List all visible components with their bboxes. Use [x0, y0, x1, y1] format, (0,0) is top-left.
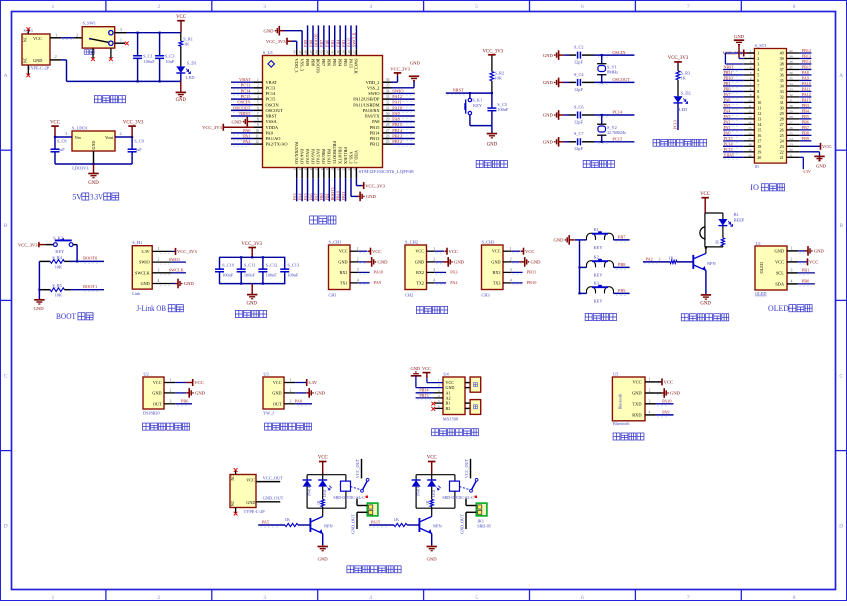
wire/net PB11 (bottom) — [345, 178, 347, 201]
wire/net PB15 (ST1 right) — [800, 68, 812, 70]
svg-text:16: 16 — [309, 167, 313, 171]
svg-text:1: 1 — [55, 33, 57, 38]
svg-text:PA3/RX/AO: PA3/RX/AO — [294, 142, 299, 164]
button K2 KEY — [580, 266, 587, 268]
pin U1.32 (PA11/USBDM) — [383, 104, 392, 106]
svg-text:VCC: VCC — [318, 455, 328, 460]
switch S_SW1 — [82, 27, 115, 48]
wire/net BOOT1 — [70, 289, 104, 291]
svg-text:5: 5 — [750, 71, 752, 75]
capacitor S_C12 100nF — [262, 257, 264, 269]
capacitor S_C2 12pF — [569, 54, 576, 56]
svg-text:PB11: PB11 — [724, 70, 733, 75]
svg-text:VCC: VCC — [415, 249, 424, 254]
svg-text:GND: GND — [315, 391, 326, 396]
wire/net PA5 (bottom) — [307, 178, 309, 201]
wire/net PB13 — [392, 138, 415, 140]
sensor U2 DS18B20 body — [143, 377, 164, 409]
svg-text:4: 4 — [750, 66, 752, 70]
svg-text:8: 8 — [793, 595, 796, 601]
svg-text:NPN: NPN — [324, 524, 334, 529]
svg-text:10: 10 — [255, 129, 259, 133]
svg-text:25: 25 — [386, 140, 390, 144]
title 声光报警电路 — [681, 314, 728, 321]
svg-text:Bluetooth: Bluetooth — [613, 421, 630, 426]
svg-text:GND: GND — [670, 391, 681, 396]
svg-text:SWCLK: SWCLK — [354, 59, 359, 75]
pin U1.12 (PA2/TX/AO) — [253, 143, 262, 145]
svg-text:PA4: PA4 — [297, 193, 302, 201]
svg-text:7: 7 — [750, 82, 752, 86]
svg-text:SRD-05: SRD-05 — [477, 523, 491, 528]
svg-text:3.3V: 3.3V — [90, 192, 103, 201]
svg-text:S_C4: S_C4 — [574, 72, 584, 77]
svg-text:RXD: RXD — [632, 413, 641, 418]
svg-text:30: 30 — [789, 104, 793, 108]
relay coil K1 — [345, 475, 347, 481]
wire/net PA0 (U3 OUT) — [295, 403, 312, 405]
button K1 KEY — [580, 239, 587, 241]
diode D2 1N4148 (flyback) — [415, 475, 417, 480]
svg-text:2: 2 — [55, 54, 57, 59]
wire pin21 3.3V — [800, 156, 804, 158]
svg-text:100uF: 100uF — [144, 59, 156, 64]
wire left trunk (boot) — [38, 261, 40, 299]
svg-text:35: 35 — [789, 77, 793, 81]
wire/net VCC_OUT (relay 2) — [470, 459, 472, 479]
svg-text:2: 2 — [357, 258, 359, 262]
svg-text:4: 4 — [357, 279, 359, 283]
wire/net PA12 (ST1 right) — [800, 96, 812, 98]
display U1 OLED body — [755, 246, 787, 290]
svg-text:36: 36 — [386, 78, 390, 82]
svg-text:12: 12 — [748, 109, 752, 113]
svg-text:SWCLK: SWCLK — [169, 268, 185, 273]
svg-text:VCC: VCC — [822, 144, 831, 149]
pin U1 top BOOT0 — [317, 49, 319, 55]
svg-text:6: 6 — [581, 4, 584, 10]
power port GND (H1.4) — [172, 283, 175, 285]
svg-text:PA2: PA2 — [646, 256, 653, 261]
svg-text:6: 6 — [581, 595, 584, 601]
svg-text:34: 34 — [789, 82, 793, 86]
pin U1 top PB9 — [307, 49, 309, 55]
connector T2 (TYPE-C-2P out) — [230, 475, 256, 508]
svg-text:9: 9 — [257, 123, 259, 127]
wire/net PA11 — [392, 104, 415, 106]
svg-text:PA11: PA11 — [802, 87, 811, 92]
pin ST1.19 — [744, 151, 755, 153]
svg-text:100nF: 100nF — [222, 272, 234, 277]
svg-text:U4: U4 — [443, 371, 449, 376]
ground GND (boot) — [38, 298, 40, 300]
svg-text:2: 2 — [76, 33, 78, 38]
svg-text:43: 43 — [320, 50, 324, 54]
svg-text:PB12: PB12 — [392, 139, 402, 144]
svg-text:VDD_1: VDD_1 — [354, 150, 359, 164]
svg-text:1: 1 — [757, 51, 759, 56]
svg-text:PB11: PB11 — [527, 270, 536, 275]
wire/net PB5 (top) — [334, 25, 336, 49]
wire/net PA5 (relay 1 base) — [258, 524, 285, 526]
svg-text:BEEP: BEEP — [734, 218, 745, 223]
svg-text:4: 4 — [510, 279, 512, 283]
svg-text:RX3: RX3 — [493, 270, 501, 275]
svg-text:7: 7 — [687, 4, 690, 10]
pin ST1.5 — [744, 74, 755, 76]
svg-text:PB2/BOOT1: PB2/BOOT1 — [332, 141, 337, 164]
svg-text:PC14: PC14 — [724, 141, 733, 146]
svg-text:44: 44 — [314, 50, 318, 54]
svg-text:6: 6 — [257, 106, 259, 110]
svg-text:PB10: PB10 — [527, 280, 537, 285]
driver U4 MX1508 body — [443, 377, 465, 415]
svg-text:VCC: VCC — [809, 260, 818, 265]
svg-text:1: 1 — [170, 378, 172, 382]
wire/net PA6 (ST1 left) — [723, 101, 744, 103]
pin U1 bottom PB10/TX — [339, 168, 341, 179]
svg-text:100nF: 100nF — [287, 272, 299, 277]
svg-text:S_C1: S_C1 — [143, 54, 153, 59]
svg-text:10: 10 — [757, 100, 761, 105]
wire/net PA10 (U5 TXD) — [656, 403, 674, 405]
pin ST1.34 — [787, 85, 800, 87]
wire pin3 to VCC_3V3 — [725, 52, 743, 54]
svg-text:PA10: PA10 — [392, 105, 402, 110]
wire/net PA3 (ST1 left) — [723, 118, 744, 120]
svg-text:20: 20 — [757, 155, 761, 160]
pin U1.30 (PA9/TX) — [383, 115, 392, 117]
pin U1 bottom PA3/RX/AO — [296, 168, 298, 179]
pin U1.5 (OSCIN) — [253, 104, 262, 106]
wire/net PA0 (ST1 left) — [723, 134, 744, 136]
power port VCC (CH1) — [358, 250, 367, 252]
svg-text:VCC_3V3: VCC_3V3 — [266, 39, 286, 44]
svg-text:D: D — [839, 524, 843, 530]
svg-text:PA9: PA9 — [392, 111, 400, 116]
capacitor S_C5 100nF — [491, 93, 493, 108]
power port VCC (CH3) — [511, 250, 520, 252]
svg-text:GND: GND — [272, 390, 281, 395]
wire/net SWIO — [392, 92, 415, 94]
wire/net PA12 — [392, 98, 415, 100]
svg-text:1K: 1K — [426, 500, 430, 505]
svg-text:3: 3 — [65, 131, 67, 136]
svg-text:41: 41 — [331, 50, 335, 54]
svg-text:24: 24 — [352, 167, 356, 171]
wire/net PB11 (CH3 RX) — [511, 271, 522, 273]
svg-text:1: 1 — [257, 78, 259, 82]
svg-text:LDO3V3: LDO3V3 — [72, 165, 88, 170]
svg-text:GND: GND — [88, 181, 99, 186]
svg-text:PB6: PB6 — [327, 59, 332, 67]
svg-text:18: 18 — [320, 167, 324, 171]
wire/net PB4 (top) — [339, 25, 341, 49]
pin U1.8 (VSSA) — [253, 121, 262, 123]
svg-text:PC15: PC15 — [266, 97, 277, 102]
pin ST1.16 — [744, 134, 755, 136]
wire/net PB11 (ST1 left) — [723, 74, 744, 76]
wire/net PB13 (ST1 right) — [800, 57, 812, 59]
pin ST1.38 — [787, 63, 800, 65]
svg-text:1N4148: 1N4148 — [308, 484, 312, 496]
sensor U3 YW_J body — [263, 377, 284, 409]
title 蓝牙模块 — [613, 433, 644, 440]
svg-text:PB0/AO: PB0/AO — [321, 149, 326, 164]
pin T1-bottom no-connect — [27, 65, 29, 75]
wire relay 1 bottom rail — [307, 507, 346, 509]
svg-text:GND: GND — [141, 281, 150, 286]
pin U1.34 (SWIO) — [383, 92, 392, 94]
wire/net PA4 (bottom) — [301, 178, 303, 201]
wire filter top rail — [219, 256, 285, 258]
svg-text:3: 3 — [290, 399, 292, 403]
pin ST1.25 — [787, 134, 800, 136]
transistor Q NPN (relay 1) — [322, 508, 324, 516]
pin ST1.32 — [787, 96, 800, 98]
svg-text:GND: GND — [184, 281, 195, 286]
power port GND (U3) — [295, 392, 306, 394]
relay output connector JK1 — [367, 503, 378, 516]
svg-text:GND: GND — [152, 390, 161, 395]
svg-text:7: 7 — [687, 595, 690, 601]
wire/net PB1 (OLED SCL) — [798, 272, 815, 274]
svg-text:VCC_3V3: VCC_3V3 — [18, 242, 38, 247]
svg-text:PC13: PC13 — [266, 85, 277, 90]
svg-text:17: 17 — [757, 138, 761, 143]
wire/net PA10 (ST1 right) — [800, 85, 812, 87]
svg-text:VCC: VCC — [372, 249, 381, 254]
pin U1.25 (PB12) — [383, 143, 392, 145]
svg-text:24: 24 — [789, 137, 793, 141]
svg-text:VBAT: VBAT — [724, 152, 735, 157]
wire GND to U4.2 — [415, 376, 417, 388]
svg-text:PB8: PB8 — [802, 130, 809, 135]
power port 3.3V (U3) — [295, 382, 306, 384]
svg-text:27: 27 — [780, 122, 784, 127]
pin U1 top PB6 — [328, 49, 330, 55]
svg-text:VCC: VCC — [449, 249, 458, 254]
relay output connector JK2 — [476, 503, 487, 516]
svg-text:S_K1: S_K1 — [472, 98, 482, 103]
svg-text:S_SW1: S_SW1 — [83, 21, 96, 26]
svg-text:10K: 10K — [55, 292, 63, 297]
svg-text:PB9: PB9 — [305, 59, 310, 67]
svg-text:PA10: PA10 — [374, 270, 383, 275]
svg-text:10: 10 — [748, 99, 752, 103]
svg-text:PB8: PB8 — [310, 59, 315, 67]
wire relay 1 emitter to GND — [322, 534, 324, 546]
wire/net PA3 (CH2 RX) — [435, 271, 446, 273]
svg-text:VCC_3V3: VCC_3V3 — [177, 249, 197, 254]
svg-text:2: 2 — [750, 55, 752, 59]
pin ST1.8 — [744, 90, 755, 92]
wire/net PA2 (CH2 TX) — [435, 282, 446, 284]
svg-text:BOOT0: BOOT0 — [316, 59, 321, 74]
svg-text:37: 37 — [352, 50, 356, 54]
svg-text:PA4: PA4 — [724, 108, 731, 113]
wire/net PA15 (ST1 right) — [800, 101, 812, 103]
pin U1.26 (PB13) — [383, 138, 392, 140]
svg-text:PC15: PC15 — [241, 94, 252, 99]
svg-text:B: B — [839, 223, 843, 229]
svg-text:14: 14 — [757, 122, 761, 127]
svg-text:5: 5 — [475, 595, 478, 601]
svg-text:S_C13: S_C13 — [287, 262, 299, 267]
svg-text:TYPE-C-2P: TYPE-C-2P — [244, 509, 266, 514]
wire/net GND_OUT (T2) — [256, 501, 280, 503]
pin U1.3 (PC14) — [253, 92, 262, 94]
svg-text:CH1: CH1 — [329, 292, 337, 297]
svg-text:GND: GND — [427, 556, 438, 561]
svg-text:4: 4 — [757, 67, 759, 72]
wire/net PB7 (top) — [323, 25, 325, 49]
svg-text:11: 11 — [757, 105, 761, 110]
svg-text:YW_J: YW_J — [263, 410, 274, 415]
LED (alarm) — [722, 213, 724, 219]
wire/net PC14 (ST1 left) — [723, 145, 744, 147]
svg-text:GND: GND — [553, 238, 564, 243]
pin T2-bottom no-connect — [235, 508, 237, 514]
svg-text:19: 19 — [748, 148, 752, 152]
wire/net PA5 (ST1 left) — [723, 107, 744, 109]
wire/net OSCOUT — [231, 109, 253, 111]
relay switch contacts 2 — [460, 487, 470, 490]
wire/net PB7 (ST1 right) — [800, 129, 812, 131]
wire/net PB9 (ST1 right) — [800, 140, 812, 142]
svg-text:20: 20 — [748, 153, 752, 157]
wire/net PA9 (U5 RXD) — [656, 414, 674, 416]
svg-text:S_C12: S_C12 — [266, 262, 278, 267]
svg-text:SCL: SCL — [776, 271, 784, 276]
svg-text:VCC: VCC — [273, 380, 282, 385]
pin U1 bottom PB2/BOOT1 — [334, 168, 336, 179]
svg-text:GND: GND — [246, 500, 255, 505]
wire/net NRST (ST1 left) — [723, 68, 744, 70]
svg-text:1: 1 — [120, 38, 122, 43]
header S_H1 (J-Link) — [132, 246, 152, 289]
svg-text:S_CH3: S_CH3 — [482, 240, 496, 245]
wire/net PB3 (ST1 right) — [800, 107, 812, 109]
svg-text:19: 19 — [757, 149, 761, 154]
wire/net PA10 (CH1 RX) — [358, 271, 369, 273]
svg-text:B1: B1 — [446, 401, 451, 406]
pin U1 top VDD_3 — [296, 49, 298, 55]
pin ST1.36 — [787, 74, 800, 76]
wire pin22 to GND — [800, 151, 820, 153]
wire/net PA11 (ST1 right) — [800, 90, 812, 92]
svg-text:KEY: KEY — [594, 273, 604, 278]
pin ST1.18 — [744, 145, 755, 147]
power port GND (U2) — [175, 392, 186, 394]
svg-text:SWCLK: SWCLK — [352, 32, 357, 47]
svg-text:2: 2 — [170, 389, 172, 393]
svg-text:PB3: PB3 — [343, 59, 348, 67]
svg-text:PB8: PB8 — [618, 262, 626, 267]
svg-text:SWIO: SWIO — [169, 257, 180, 262]
pin T2-top no-connect — [235, 471, 237, 475]
title 直流电机电路 — [432, 429, 479, 436]
svg-text:VCC: VCC — [339, 249, 348, 254]
svg-text:PB6: PB6 — [181, 398, 189, 403]
wire/net PA3 (bottom) — [296, 178, 298, 201]
wire/net PB8 (top) — [312, 25, 314, 49]
svg-text:PB7: PB7 — [321, 59, 326, 67]
wire/net PB12 (ST1 right) — [800, 52, 812, 54]
svg-text:GND: GND — [454, 260, 465, 265]
pin U1.6 (OSCOUT) — [253, 109, 262, 111]
pin U1 top PB7 — [323, 49, 325, 55]
power port VCC (U5) — [656, 381, 662, 383]
svg-text:BOOT1: BOOT1 — [83, 284, 97, 289]
svg-text:S_K2: S_K2 — [53, 235, 63, 240]
wire K2 to BOOT0 node — [76, 245, 78, 262]
svg-text:100nF: 100nF — [497, 107, 509, 112]
wire/net GND_OUT (relay 1) — [357, 511, 367, 513]
svg-text:PA3: PA3 — [450, 270, 457, 275]
svg-text:PB15: PB15 — [370, 125, 381, 130]
svg-text:PB13: PB13 — [370, 136, 381, 141]
svg-text:1K: 1K — [394, 517, 400, 522]
svg-text:U2: U2 — [143, 372, 148, 377]
svg-text:36: 36 — [789, 71, 793, 75]
pin U4.5 no-connect — [435, 402, 444, 404]
svg-text:B2: B2 — [446, 406, 451, 411]
svg-text:GND: GND — [411, 366, 421, 371]
wire/net OSCIN — [231, 104, 253, 106]
wire alarm emitter to GND — [705, 270, 707, 294]
svg-text:PB8: PB8 — [308, 40, 313, 47]
svg-text:GND: GND — [33, 58, 42, 63]
wire/net PA8 — [392, 121, 415, 123]
svg-text:VCC: VCC — [492, 249, 501, 254]
svg-text:S_R5: S_R5 — [52, 283, 62, 288]
pin U1.28 (PB15) — [383, 126, 392, 128]
pin ST1.29 — [787, 112, 800, 114]
wire/net PB5 (ST1 right) — [800, 118, 812, 120]
svg-text:PB14: PB14 — [392, 128, 403, 133]
svg-text:12: 12 — [255, 140, 259, 144]
pin ST1.21 — [787, 156, 800, 158]
svg-text:PB0: PB0 — [802, 279, 809, 284]
svg-text:S_CH1: S_CH1 — [329, 240, 342, 245]
wire/net GND_OUT (relay 2) — [466, 511, 476, 513]
svg-text:KEY: KEY — [594, 245, 604, 250]
svg-text:VCC_3V3: VCC_3V3 — [483, 50, 504, 55]
svg-text:PC15: PC15 — [612, 137, 623, 142]
svg-text:1: 1 — [433, 247, 435, 251]
capacitor S_C7 12pF — [569, 141, 576, 143]
pin U1 bottom PA5/AO — [307, 168, 309, 179]
svg-text:IO: IO — [750, 183, 759, 192]
pin U1 top PB3 — [345, 49, 347, 55]
wire/net PB10 (CH3 TX) — [511, 282, 522, 284]
wire/net PB0 (ST1 left) — [723, 90, 744, 92]
svg-text:VDD_3: VDD_3 — [294, 59, 299, 74]
ground GND (filter) — [251, 284, 253, 295]
svg-text:15: 15 — [303, 167, 307, 171]
svg-text:GND: GND — [338, 259, 347, 264]
svg-text:CH3: CH3 — [482, 292, 490, 297]
svg-text:PA12/USB/DP: PA12/USB/DP — [353, 97, 380, 102]
pin U1.29 (PA8) — [383, 121, 392, 123]
svg-text:10uF: 10uF — [165, 59, 174, 64]
svg-text:1: 1 — [158, 247, 160, 251]
svg-text:VCC: VCC — [194, 380, 203, 385]
svg-text:NC: NC — [24, 36, 28, 42]
buzzer B1 — [704, 213, 706, 227]
svg-text:PA8: PA8 — [372, 119, 380, 124]
